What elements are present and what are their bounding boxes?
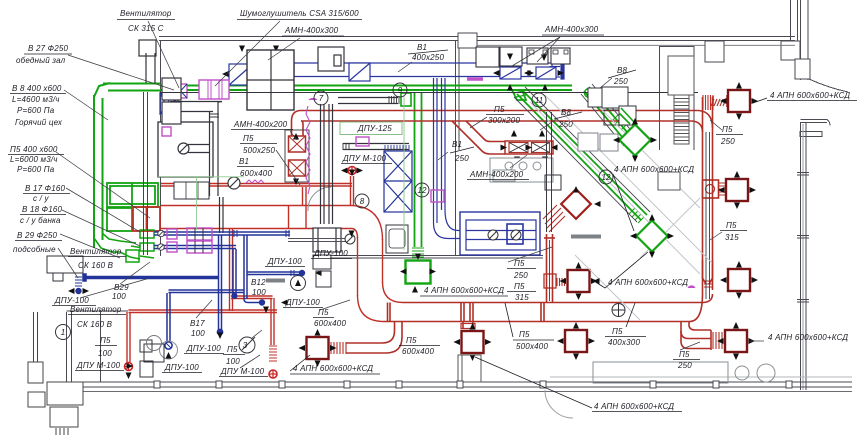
node 11 xyxy=(532,93,546,107)
svg-text:12: 12 xyxy=(602,173,611,182)
bottom wall xyxy=(47,381,852,383)
leader П5 315 right xyxy=(710,232,722,240)
red valve stub pair xyxy=(350,176,352,205)
band elbow down xyxy=(352,206,383,241)
svg-text:600х400: 600х400 xyxy=(314,319,346,328)
svg-text:Шумоглушитель CSA 315/600: Шумоглушитель CSA 315/600 xyxy=(240,9,359,18)
stub to АПН e xyxy=(462,322,464,330)
drop x245 xyxy=(243,235,245,299)
branch to АПН f xyxy=(681,322,711,339)
duct В8 top horizontal xyxy=(103,83,160,85)
svg-text:100: 100 xyxy=(98,349,112,358)
riser branch box to АПН b xyxy=(703,180,719,198)
stairwell steps xyxy=(668,56,694,95)
svg-text:4 АПН 600х600+КСД: 4 АПН 600х600+КСД xyxy=(608,278,688,287)
red drop x128 xyxy=(126,312,128,362)
В8 diagonal black edge lines xyxy=(514,84,650,222)
node 9 xyxy=(393,83,407,97)
leader Вентилятор СК315С xyxy=(148,21,179,88)
svg-text:П5: П5 xyxy=(726,221,737,230)
magenta wavy connector xyxy=(246,180,264,183)
right wall xyxy=(800,122,802,390)
damper box with diag right of АМН#1 xyxy=(349,63,370,81)
red line H y311 xyxy=(129,309,278,311)
duct branch АПН d: down from main, elbow west xyxy=(346,322,402,354)
svg-text:ДПУ-100: ДПУ-100 xyxy=(54,296,89,305)
svg-text:100: 100 xyxy=(191,329,205,338)
svg-text:4 АПН 600х600+КСД: 4 АПН 600х600+КСД xyxy=(768,333,848,342)
diffuser АПН green square xyxy=(400,261,436,284)
leaders В8 left labels xyxy=(64,90,108,120)
svg-text:АМН-400x300: АМН-400x300 xyxy=(544,25,599,34)
svg-text:с / у: с / у xyxy=(33,194,49,203)
leader П5 600x400 upper xyxy=(320,300,350,310)
svg-text:12: 12 xyxy=(418,186,427,195)
bottom wall mullions xyxy=(154,381,792,388)
svg-text:П5: П5 xyxy=(406,336,417,345)
round takeoff fitting xyxy=(585,89,594,98)
svg-text:600x400: 600x400 xyxy=(240,169,272,178)
leader В1 400x250 xyxy=(398,62,412,72)
blue flex at left xyxy=(75,277,82,286)
top wall xyxy=(159,36,795,38)
fan СК315С symbol on duct xyxy=(174,84,187,98)
svg-text:П5: П5 xyxy=(612,327,623,336)
svg-text:с / у банка: с / у банка xyxy=(20,216,61,225)
svg-text:250: 250 xyxy=(720,137,735,146)
svg-text:250: 250 xyxy=(677,361,692,370)
svg-text:АМН-400x200: АМН-400x200 xyxy=(469,170,524,179)
node 12b xyxy=(599,170,613,184)
riser taper to АПН c xyxy=(703,260,713,284)
svg-text:ДПУ М-100: ДПУ М-100 xyxy=(220,367,265,376)
duct В1 horizontal xyxy=(294,62,552,64)
ДПУ duct pair y240 xyxy=(288,238,354,240)
svg-text:обедный зал: обедный зал xyxy=(16,56,66,65)
kitchen V duct xyxy=(209,112,211,197)
svg-text:ДПУ-100: ДПУ-100 xyxy=(267,257,302,266)
counter bottom right xyxy=(593,362,728,383)
fan inlet cone xyxy=(160,93,180,114)
red riser x229 xyxy=(229,229,231,311)
top wall box xyxy=(458,33,477,48)
svg-text:АМН-400x200: АМН-400x200 xyxy=(233,120,288,129)
svg-text:7: 7 xyxy=(319,94,324,103)
red drop x304 xyxy=(302,187,304,206)
duct flanges xyxy=(175,100,219,117)
svg-text:АМН-400x300: АМН-400x300 xyxy=(284,26,339,35)
leader В8 labels xyxy=(600,78,612,88)
svg-text:Вентилятор: Вентилятор xyxy=(120,9,172,18)
red line H y297 xyxy=(231,295,273,297)
svg-text:В 17 Ф160: В 17 Ф160 xyxy=(25,184,66,193)
branch H y273 xyxy=(247,271,300,273)
svg-text:4 АПН 600х600+КСД: 4 АПН 600х600+КСД xyxy=(614,165,694,174)
diag corridor walls xyxy=(530,102,700,274)
partition near AHU xyxy=(455,41,457,151)
silencer CSA 315/600 xyxy=(199,80,229,99)
duct П5 right riser xyxy=(702,97,704,294)
kitchen hood room box xyxy=(158,122,213,177)
serving row boxes xyxy=(578,133,680,190)
wall under AHU xyxy=(330,255,543,257)
svg-text:ДПУ-100: ДПУ-100 xyxy=(313,249,348,258)
leader ДПУ-100 top-left xyxy=(80,278,150,298)
red flex x272 xyxy=(269,346,277,361)
duct В1 second run xyxy=(552,66,560,68)
duct В1 corner fitting xyxy=(546,63,552,77)
bottom elbow into main duct xyxy=(358,295,385,322)
duct П5 right elbow into riser xyxy=(699,111,713,129)
duct В1 end cap xyxy=(561,65,564,79)
top-right shaft verticals xyxy=(790,0,792,44)
leader В17 xyxy=(196,300,212,318)
ДПУ М-100 duct xyxy=(343,143,409,145)
blue dots and valves xyxy=(299,270,305,276)
exhaust tower X-braced xyxy=(384,145,412,212)
AHU unit xyxy=(460,212,540,255)
kitchen small boxes left cluster xyxy=(313,255,331,269)
duct В8 diagonal to diamond b xyxy=(517,94,641,220)
green elbow outlets lower-left xyxy=(94,238,120,252)
В1 arrows xyxy=(222,71,229,77)
duct bottom right elbow up xyxy=(701,294,713,303)
node 1 xyxy=(56,325,71,340)
svg-text:250: 250 xyxy=(613,77,628,86)
svg-text:400х300: 400х300 xyxy=(608,338,640,347)
duct В8 center drop xyxy=(414,92,416,247)
branch duct with round damper xyxy=(188,144,210,146)
АМН-400x200 bank left (red frames with X) xyxy=(285,130,309,182)
kitchen duct drop 2 xyxy=(434,78,461,239)
В8 drop arrow xyxy=(415,254,421,261)
svg-text:П5: П5 xyxy=(227,345,238,354)
svg-text:П5 400 x600: П5 400 x600 xyxy=(10,145,58,154)
gray bar xyxy=(266,279,285,283)
svg-text:В 18 Ф160: В 18 Ф160 xyxy=(22,205,63,214)
svg-text:П5: П5 xyxy=(679,350,690,359)
flex to АПН d xyxy=(331,342,346,354)
leader Шумоглушитель xyxy=(215,21,280,86)
svg-text:подсобные: подсобные xyxy=(13,245,56,254)
magenta box on drop2 xyxy=(431,190,444,202)
svg-text:L=4600 м3/ч: L=4600 м3/ч xyxy=(12,95,60,104)
svg-text:ДПУ-100: ДПУ-100 xyxy=(285,298,320,307)
svg-text:Р=600 Па: Р=600 Па xyxy=(17,106,55,115)
fan box СК 315 С on wall xyxy=(139,40,156,56)
svg-text:315: 315 xyxy=(515,293,529,302)
magenta blobs xyxy=(467,77,483,81)
svg-text:315: 315 xyxy=(725,233,739,242)
left lower walls xyxy=(66,312,68,382)
svg-text:100: 100 xyxy=(252,288,266,297)
red drop x272 xyxy=(270,298,272,345)
svg-text:4 АПН 600х600+КСД: 4 АПН 600х600+КСД xyxy=(594,402,674,411)
svg-text:250: 250 xyxy=(454,154,469,163)
flex coupling on duct xyxy=(389,96,399,104)
blue row y247 xyxy=(154,245,236,247)
svg-text:ДПУ-100: ДПУ-100 xyxy=(186,344,221,353)
red line H y184 xyxy=(161,183,352,185)
basin box below tower xyxy=(386,225,408,253)
svg-text:СК 160 В: СК 160 В xyxy=(77,320,113,329)
svg-text:В1: В1 xyxy=(452,140,462,149)
gray box below АПН e xyxy=(458,355,481,382)
arrow into П5 duct xyxy=(349,231,355,238)
leader АМН #2 xyxy=(537,37,560,62)
coupling ticks on main duct xyxy=(387,303,389,322)
svg-text:Вентилятор: Вентилятор xyxy=(70,305,122,314)
node 3 xyxy=(239,337,255,353)
svg-text:4 АПН 600х600+КСД: 4 АПН 600х600+КСД xyxy=(424,286,504,295)
damper box АМН right 2 xyxy=(536,67,556,79)
leader labels П5/В1 #1 xyxy=(276,150,300,185)
svg-text:1: 1 xyxy=(61,328,65,337)
coupling ticks xyxy=(234,230,289,237)
kitchen partition wall xyxy=(160,41,162,257)
svg-text:250: 250 xyxy=(558,120,573,129)
leader В1 250 xyxy=(438,152,448,160)
АМН-400x200 bank center (red band with X boxes) xyxy=(505,141,553,154)
В8 fan boxes on diagonal xyxy=(588,87,636,125)
svg-text:ДПУ М-100: ДПУ М-100 xyxy=(76,361,121,370)
corridor line along В8 xyxy=(160,92,698,94)
red riser top hatch to АПН a xyxy=(703,95,713,110)
kitchen exhaust drop 1 xyxy=(320,104,322,224)
svg-text:250: 250 xyxy=(513,271,528,280)
kitchen counter boxes xyxy=(174,182,209,199)
svg-text:500x250: 500x250 xyxy=(243,146,275,155)
svg-text:П5: П5 xyxy=(100,336,111,345)
valve ДПУ М-100 right xyxy=(269,370,277,378)
H y291 xyxy=(169,289,245,291)
leader П5 mid xyxy=(508,247,552,262)
svg-text:СК 315 С: СК 315 С xyxy=(128,24,164,33)
pale green room walls xyxy=(158,96,404,250)
svg-text:В1: В1 xyxy=(417,43,427,52)
top wall box xyxy=(705,41,724,62)
svg-text:В17: В17 xyxy=(190,319,205,328)
duct В8 branch diagonal to diamond a xyxy=(584,91,627,143)
duct black H top center xyxy=(338,97,398,99)
node 12a xyxy=(415,183,429,197)
magenta box on ДПУ М-100 duct xyxy=(356,137,369,146)
svg-text:3: 3 xyxy=(243,341,248,350)
hood cell green lower xyxy=(107,208,132,231)
green takeoff fitting at В8 junction xyxy=(512,90,526,100)
svg-text:В 29 Ф250: В 29 Ф250 xyxy=(17,231,58,240)
damper circle kitchen xyxy=(228,177,240,189)
kitchen duct pair below fan column xyxy=(143,92,145,255)
svg-text:П5: П5 xyxy=(494,105,505,114)
svg-text:П5: П5 xyxy=(519,330,530,339)
label ДПУ-125 xyxy=(340,122,402,135)
П5 315 takeoff box to АПН g xyxy=(544,274,556,288)
node 7 xyxy=(314,91,328,105)
svg-text:В12: В12 xyxy=(251,278,266,287)
hood box top xyxy=(318,47,344,71)
duct П5 diagonal branch to grille bank xyxy=(452,121,505,154)
outlet damper circles xyxy=(158,230,164,250)
svg-text:600х400: 600х400 xyxy=(402,347,434,356)
leader АМН #1 xyxy=(268,38,300,60)
leader АМН-400x200 #1 xyxy=(290,131,297,140)
leader В29 xyxy=(120,262,150,284)
branch H y301 xyxy=(244,299,259,303)
svg-text:9: 9 xyxy=(398,86,403,95)
П5 600x400 vertical band xyxy=(357,237,359,296)
duct В8 top elbow xyxy=(94,83,110,97)
leader АМН-400x200 #2 xyxy=(510,155,527,168)
svg-text:Горячий цех: Горячий цех xyxy=(15,118,63,127)
svg-text:11: 11 xyxy=(535,96,543,105)
damper box АМН right 1 xyxy=(500,67,521,79)
stairwell walls top-right-center xyxy=(659,46,661,150)
valve ДПУ М-100 kitchen xyxy=(348,167,356,175)
svg-text:100: 100 xyxy=(112,292,126,301)
svg-text:4 АПН 600х600+КСД: 4 АПН 600х600+КСД xyxy=(770,91,850,100)
svg-text:ДПУ М-100: ДПУ М-100 xyxy=(342,154,387,163)
АПН diffusers red squares xyxy=(720,82,758,120)
duct П5 main bottom horizontal (500x400) xyxy=(403,302,701,304)
svg-text:500х400: 500х400 xyxy=(516,342,548,351)
leader П5 right column top xyxy=(710,120,722,130)
diffuser red diamond xyxy=(561,186,600,219)
flexible connection zigzag xyxy=(306,106,310,194)
flex couplings rows xyxy=(167,229,177,239)
СК160В thick blue line xyxy=(85,276,219,279)
blue fittings x285-294 xyxy=(285,63,294,77)
flex connector to diamond b xyxy=(629,208,644,223)
flex connector to square diffuser xyxy=(412,248,424,257)
red door arc xyxy=(308,187,331,211)
duct В8 left vertical xyxy=(93,95,95,248)
green connector square on black duct xyxy=(401,93,411,106)
inner wall face line xyxy=(477,44,795,46)
svg-text:П5: П5 xyxy=(514,259,525,268)
fan box СК160В left xyxy=(47,256,83,273)
svg-text:П5: П5 xyxy=(318,308,329,317)
П5 riser to AHU (x549) xyxy=(546,234,548,302)
duct drop to blue cluster xyxy=(219,197,221,233)
svg-text:4 АПН 600х600+КСД: 4 АПН 600х600+КСД xyxy=(293,364,373,373)
duct elbow into AHU xyxy=(434,223,461,239)
arrows on hood bank xyxy=(293,133,299,140)
drop x168 xyxy=(166,293,168,341)
left bottom stair structure xyxy=(47,382,83,405)
svg-text:8: 8 xyxy=(360,197,365,206)
small box near diamond a xyxy=(604,110,620,125)
box ++ xyxy=(545,175,561,190)
drop x220 xyxy=(218,235,220,330)
svg-text:В 8 400 x600: В 8 400 x600 xyxy=(12,84,62,93)
green diag through fan box xyxy=(619,108,634,124)
svg-text:П5: П5 xyxy=(514,282,525,291)
flex AHU to red diamond xyxy=(543,205,565,232)
kitchen H duct from cone xyxy=(170,101,222,103)
leader ДПУ М-100 #2 xyxy=(240,355,260,368)
duct П5 top horizontal (300x200) xyxy=(301,110,699,112)
AHU dampers xyxy=(488,230,498,240)
hood bank frame green xyxy=(107,183,158,207)
node 8 xyxy=(355,194,369,208)
damper circle on main duct xyxy=(612,304,625,317)
duct П5 600x400 west band xyxy=(161,205,352,207)
damper box АМН#1 a xyxy=(229,64,253,85)
svg-text:ДПУ-125: ДПУ-125 xyxy=(357,124,392,133)
leader 4АПН #6 xyxy=(750,340,764,342)
magenta box kitchen left xyxy=(162,127,171,136)
АМН-400x300 #2 upper boxes row xyxy=(476,47,570,67)
hood boxes lower xyxy=(313,228,341,252)
door arcs bottom xyxy=(545,390,573,418)
svg-text:В 27 Ф250: В 27 Ф250 xyxy=(28,44,69,53)
leader circle 3 xyxy=(252,330,262,338)
leader П5 bottom right xyxy=(680,342,700,350)
diffuser diamond a (green) xyxy=(613,118,657,162)
fan circle А xyxy=(291,276,306,291)
valve ДПУ М-100 left xyxy=(125,363,133,371)
silencer boxes rows xyxy=(187,228,212,240)
hood cell red lower xyxy=(133,207,160,231)
svg-text:300x200: 300x200 xyxy=(488,116,520,125)
duct В8 main horizontal xyxy=(160,85,572,87)
В8 250 drop to AHU zone xyxy=(546,112,548,232)
blue row y233 xyxy=(154,231,290,233)
svg-text:ДПУ-100: ДПУ-100 xyxy=(164,363,199,372)
flex connector to diamond a xyxy=(612,115,627,130)
gray bar 2 xyxy=(571,235,601,239)
leader П5 300x200 xyxy=(470,117,487,128)
svg-text:L=6000 м3/ч: L=6000 м3/ч xyxy=(10,155,58,164)
duct П5 left elbow down xyxy=(292,111,302,137)
АМН-400x300 unit box xyxy=(247,50,294,110)
svg-text:Р=600 Па: Р=600 Па xyxy=(17,165,55,174)
drop x234 xyxy=(232,249,234,296)
riser top flex to АПН a xyxy=(711,99,726,106)
svg-text:100: 100 xyxy=(226,357,240,366)
leader В27 xyxy=(68,55,174,90)
diffuser diamond b (green) xyxy=(630,214,674,258)
svg-text:В1: В1 xyxy=(239,157,249,166)
damper box АМН#1 b xyxy=(257,64,284,85)
svg-text:П5: П5 xyxy=(722,125,733,134)
svg-text:СК 160 В: СК 160 В xyxy=(78,261,114,270)
kitchen boxes right of wall xyxy=(162,78,181,100)
circle 2 room xyxy=(147,336,162,351)
black lines inside П5 risers xyxy=(550,132,710,301)
counter with circles center xyxy=(490,158,553,182)
svg-text:400x250: 400x250 xyxy=(412,53,444,62)
svg-text:П5: П5 xyxy=(243,134,254,143)
